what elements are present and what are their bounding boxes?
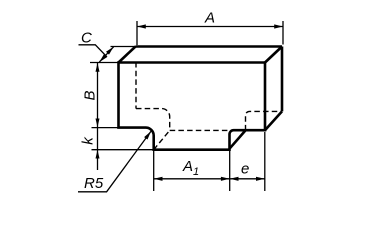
top face left depth edge	[119, 47, 136, 63]
dimension A line	[137, 26, 283, 28]
dimension B line	[97, 63, 99, 127]
arrowhead R5 leader	[144, 131, 151, 139]
arrowhead C lower	[99, 54, 107, 62]
arrowhead A left	[137, 24, 146, 28]
dimensions A1 and e line	[154, 178, 265, 180]
top face right depth edge	[265, 47, 282, 63]
arrowhead k bottom	[96, 150, 100, 159]
foot bottom-right visible depth edge	[230, 130, 246, 148]
svg-text:e: e	[241, 161, 249, 178]
arrowhead e left	[230, 177, 239, 181]
arrowhead e right	[256, 177, 265, 181]
front face outline of block with notched bottom corners	[119, 63, 266, 150]
arrowhead B top	[96, 63, 100, 72]
svg-text:R5: R5	[84, 175, 104, 192]
back right edge	[281, 47, 284, 112]
hidden foot bottom-left depth edge (dashed)	[154, 130, 170, 149]
arrowhead A right	[274, 24, 283, 28]
dimension k arrow shaft below	[97, 150, 99, 170]
svg-text:A1: A1	[182, 158, 199, 178]
svg-text:B: B	[82, 90, 99, 100]
dimension A extension lines	[137, 21, 283, 45]
dimension B extension lines	[90, 63, 119, 128]
hidden right notch back profile (dashed)	[246, 111, 282, 130]
C back-top extension line	[111, 46, 136, 48]
dimension k bottom extension line	[92, 149, 154, 151]
back top edge	[136, 45, 283, 48]
svg-text:k: k	[79, 136, 96, 145]
chamfer C reference shelf and leader	[79, 45, 108, 57]
svg-text:C: C	[81, 30, 92, 47]
hidden back-left vertical edge (dashed)	[135, 62, 137, 109]
svg-text:A: A	[204, 10, 215, 27]
dimensions A1 and e extension lines	[154, 132, 265, 191]
hidden foot back bottom edge (dashed)	[170, 129, 228, 131]
R5 shelf and leader	[78, 131, 151, 192]
arrowhead C upper	[106, 47, 114, 55]
arrowhead A1 right	[221, 177, 230, 181]
C double arrow line	[99, 47, 113, 62]
arrowhead A1 left	[154, 177, 163, 181]
arrowhead B bottom	[96, 119, 100, 128]
dimension k line	[97, 128, 99, 150]
hidden left notch back profile with fillet (dashed)	[136, 109, 170, 131]
right face bottom depth edge	[265, 111, 282, 130]
